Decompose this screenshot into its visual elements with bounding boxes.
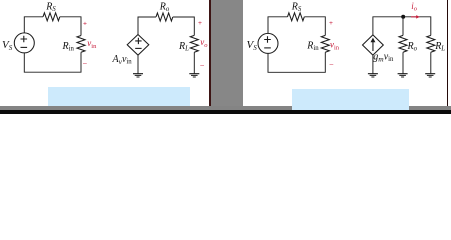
resistor Ro zigzag (right slide): [399, 35, 407, 52]
wire: RL down to ground (right slide): [430, 52, 432, 73]
resistor RS zigzag (right slide): [288, 13, 305, 21]
wire: RS to corner down to Rin (right slide): [304, 17, 325, 36]
bottom black bar: [0, 110, 451, 114]
wire: Ro down to ground (right slide): [402, 52, 404, 73]
svg-text:Rin: Rin: [306, 40, 319, 52]
wire: VS top up and across (left slide): [24, 17, 43, 33]
wire: bottom loop (left slide circuit 1): [24, 52, 81, 72]
voltage source VS (left slide): [14, 33, 34, 53]
wire: diamond top up and across (left slide): [138, 17, 156, 35]
svg-text:Ro: Ro: [407, 41, 418, 53]
bottom gray band: [0, 106, 451, 110]
wire: RL down to ground (left slide): [193, 52, 195, 73]
svg-text:–: –: [200, 62, 204, 69]
wire: gm diamond bottom to ground (right slide): [372, 55, 374, 73]
voltage source VS (right slide): [258, 33, 278, 53]
wire: RS to top-right corner down to Rin (left slide): [60, 17, 81, 36]
ground under RL (right slide): [425, 74, 435, 77]
svg-text:gmvin: gmvin: [373, 52, 394, 64]
current source arrow (right slide): [371, 38, 376, 51]
svg-text:+: +: [83, 21, 87, 28]
svg-text:RS: RS: [291, 2, 302, 14]
svg-text:Avvin: Avvin: [112, 54, 133, 66]
svg-text:Ro: Ro: [159, 2, 170, 14]
svg-text:RS: RS: [45, 2, 56, 14]
dependent source Av*vin diamond (left slide): [127, 35, 149, 56]
svg-text:–: –: [330, 61, 334, 68]
wire: Ro to corner down to RL (left slide): [173, 17, 195, 35]
ground under Ro (right slide): [398, 74, 408, 77]
svg-text:vo: vo: [200, 37, 208, 49]
svg-text:VS: VS: [2, 39, 13, 52]
resistor RL zigzag (left slide): [190, 35, 198, 52]
red current arrow io (right slide): [411, 15, 420, 19]
left slide blue highlight box: [48, 87, 190, 106]
resistor Rin zigzag (left slide): [77, 36, 85, 53]
right slide maroon right border: [447, 0, 449, 110]
ground under RL (left slide): [189, 74, 199, 77]
wire: VS top up and across (right slide): [268, 17, 288, 34]
svg-text:–: –: [83, 61, 87, 68]
dependent current source gm*vin diamond (right slide): [363, 35, 384, 55]
svg-text:VS: VS: [247, 39, 258, 52]
ground under Av source (left slide): [133, 74, 143, 77]
svg-text:vin: vin: [330, 40, 340, 52]
svg-text:RL: RL: [434, 41, 445, 53]
wire: bottom loop (right slide circuit 1): [268, 52, 325, 72]
left slide maroon right border: [209, 0, 210, 110]
resistor RL zigzag (right slide): [427, 35, 435, 52]
ground under gm source (right slide): [368, 74, 378, 77]
svg-text:Rin: Rin: [62, 41, 75, 53]
wire: diamond bottom to ground (left slide): [137, 55, 139, 73]
resistor RS zigzag (left slide): [43, 13, 60, 21]
wire: top rail (right slide circuit 2): [373, 17, 431, 36]
svg-text:vin: vin: [87, 38, 97, 50]
svg-text:+: +: [329, 20, 333, 27]
wire: junction down to Ro (right slide): [402, 17, 404, 36]
svg-text:io: io: [411, 1, 418, 13]
svg-text:RL: RL: [178, 41, 189, 53]
resistor Ro zigzag (left slide): [156, 13, 173, 21]
resistor Rin zigzag (right slide): [321, 35, 329, 52]
slide divider gray bar: [211, 0, 244, 114]
junction dot (right slide): [401, 15, 405, 19]
svg-text:+: +: [198, 20, 202, 27]
right slide blue highlight box: [292, 89, 409, 111]
